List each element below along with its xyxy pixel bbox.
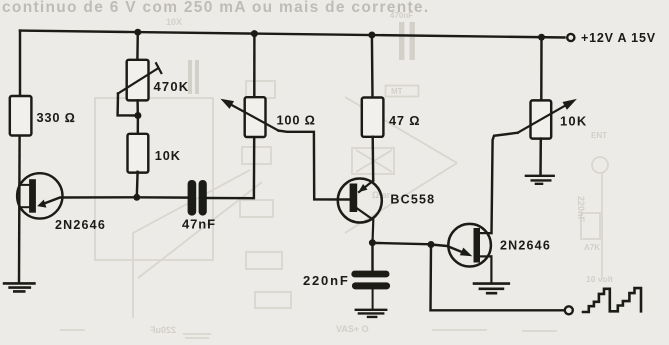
capacitor 47nF plate right — [199, 180, 207, 216]
UJT Q3 base1 stub — [480, 255, 491, 257]
capacitor 220nF bottom plate — [352, 282, 390, 289]
svg-text:220nF: 220nF — [576, 196, 586, 223]
wire: rail to 470K pot — [136, 32, 139, 59]
svg-text:47nF: 47nF — [182, 216, 216, 231]
UJT Q1 base1 stub — [19, 206, 29, 208]
svg-text:10 volt: 10 volt — [586, 274, 613, 284]
wire: node F to node G — [372, 243, 431, 244]
UJT Q1 2N2646 circle — [17, 173, 62, 218]
node B (470K/10K junction) — [134, 112, 141, 119]
svg-text:2N2646: 2N2646 — [500, 239, 551, 253]
node: rail junction H (10K pot branch) — [538, 34, 545, 41]
potentiometer 100R arrow (NW) — [228, 103, 279, 131]
UJT Q3 2N2646 circle — [448, 224, 491, 267]
staircase waveform symbol — [583, 288, 641, 312]
potentiometer 10K arrow (NE) — [518, 104, 568, 133]
ground G1 (below Q1) — [4, 283, 34, 291]
wire: 100R wiper to BC558 base — [279, 131, 350, 200]
node G (Q3 emitter / output) — [428, 241, 435, 248]
wire: node F down to 220nF — [371, 243, 373, 271]
svg-text:10K: 10K — [560, 114, 587, 129]
main schematic ink — [4, 29, 641, 317]
ground G4 (below Q3) — [474, 284, 509, 294]
node F (collector / 220nF) — [369, 239, 376, 246]
node: rail junction D (100R branch) — [251, 30, 258, 37]
wire: 470K bottom to node B — [136, 100, 139, 115]
resistor 47R body — [362, 98, 384, 137]
transistor BC558 base bar — [350, 184, 358, 213]
wire: rail to 10K pot — [540, 37, 543, 100]
UJT Q3 emitter arrowhead — [460, 248, 473, 257]
UJT Q1 base bar — [29, 179, 36, 213]
transistor BC558 collector lead — [357, 209, 373, 243]
UJT Q1 base2 stub — [19, 184, 29, 186]
svg-text:470K: 470K — [154, 79, 190, 94]
UJT Q3 base2 stub — [480, 232, 491, 234]
wire: node C to 47nF left plate — [137, 196, 188, 199]
node C (emitter / 47nF junction) — [133, 194, 140, 201]
resistor 10K body — [128, 134, 149, 173]
resistor 330R body — [10, 96, 32, 136]
svg-text:220uF: 220uF — [149, 325, 176, 335]
svg-text:continuo de 6 V com 250 mA ou: continuo de 6 V com 250 mA ou mais de co… — [2, 0, 429, 16]
wire: 470K wiper to bottom terminal — [118, 94, 138, 116]
ground G3 (below 220nF) — [356, 310, 386, 317]
UJT Q1 emitter wire from node C — [45, 197, 137, 203]
svg-text:330 Ω: 330 Ω — [37, 110, 76, 125]
potentiometer 470K arrow with tee end — [118, 63, 161, 93]
wire: 47R to BC558 emitter — [371, 137, 374, 181]
transistor BC558 emitter lead — [359, 181, 373, 192]
wire: Q3 base1 to ground G4 — [490, 256, 492, 282]
svg-text:ENT: ENT — [591, 131, 607, 140]
svg-text:+12V A 15V: +12V A 15V — [581, 31, 656, 45]
svg-text:2N2646: 2N2646 — [55, 218, 106, 232]
svg-text:47 Ω: 47 Ω — [389, 113, 420, 128]
UJT Q3 2N2646 emitter wire — [431, 245, 462, 253]
potentiometer 100R body — [245, 97, 266, 137]
UJT Q3 base bar — [474, 228, 481, 263]
svg-text:A7K: A7K — [584, 243, 600, 252]
wire: 220nF to ground G3 — [372, 289, 374, 308]
transistor BC558 emitter arrowhead (PNP) — [358, 184, 367, 192]
svg-text:BC558: BC558 — [390, 193, 435, 207]
capacitor 47nF plate left — [188, 180, 197, 216]
wire: rail to 100R pot — [253, 34, 256, 97]
wire: node B to 10K resistor — [137, 116, 140, 136]
svg-text:470nF: 470nF — [390, 11, 413, 20]
svg-text:VAS+ O: VAS+ O — [336, 324, 369, 334]
svg-text:10X: 10X — [166, 17, 182, 27]
wire: node G down to output — [431, 245, 565, 311]
wire: 10K to node C — [136, 172, 139, 197]
potentiometer 100R arrowhead — [220, 99, 234, 109]
wire: rail to 47R — [371, 35, 374, 98]
terminal +12V — [567, 34, 574, 41]
wire: 330R to UJT base2 / ground run — [18, 136, 21, 283]
svg-text:10K: 10K — [155, 149, 181, 163]
output terminal — [565, 306, 573, 314]
wire: 47nF to 100R pot bottom — [207, 137, 254, 198]
potentiometer 10K body — [531, 100, 552, 138]
wire: left branch top (rail to 330R) — [19, 31, 21, 96]
svg-text:MT: MT — [391, 87, 403, 96]
page bleed-through ghosts (decorative) — [60, 81, 608, 338]
potentiometer 470K body — [127, 60, 149, 101]
potentiometer 10K arrowhead — [563, 99, 577, 110]
wire: 10K pot bottom to ground G2 — [539, 139, 542, 175]
wire: +12V top rail — [20, 31, 565, 38]
UJT Q1 emitter arrowhead — [37, 200, 46, 208]
capacitor 220nF top plate — [351, 271, 389, 278]
svg-text:220nF: 220nF — [303, 273, 350, 288]
ground G2 (below 10K pot) — [526, 176, 554, 184]
transistor BC558 circle — [338, 179, 382, 223]
node: rail junction E (47R branch) — [368, 32, 375, 39]
svg-text:100 Ω: 100 Ω — [277, 113, 316, 128]
node: rail junction A (470K branch) — [134, 29, 141, 36]
wire: 10K wiper down to Q3 base2 — [492, 133, 518, 233]
